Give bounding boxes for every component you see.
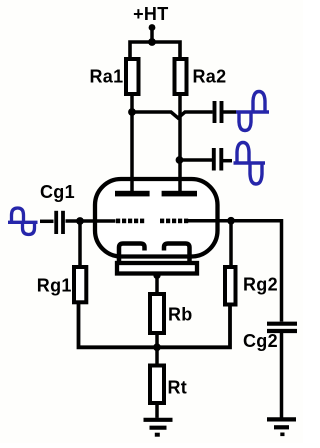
- svg-text:Rg1: Rg1: [37, 276, 72, 296]
- svg-text:+HT: +HT: [133, 4, 168, 24]
- anode plate 2: [162, 191, 197, 197]
- svg-text:Cg1: Cg1: [40, 182, 75, 202]
- wire output 2: [180, 158, 212, 162]
- wire Rg2 drop: [229, 221, 233, 265]
- wire grid 1 lead: [66, 219, 116, 223]
- junction grid 1: [76, 217, 84, 225]
- wire anode 2 vertical: [178, 96, 182, 191]
- tube envelope U1: [95, 179, 218, 257]
- wire bus to Rt: [155, 347, 159, 363]
- anode lead 1 inside: [130, 179, 134, 191]
- svg-text:Rt: Rt: [168, 378, 188, 398]
- capacitor Cg2: [267, 322, 297, 326]
- resistor Ra1: [126, 59, 139, 94]
- wire HT rail: [130, 42, 180, 57]
- capacitor output 1: [213, 101, 217, 123]
- ground left: [144, 420, 173, 428]
- resistor Rt: [150, 366, 164, 404]
- cathode bar box: [117, 263, 197, 274]
- anode plate 1: [115, 191, 150, 197]
- wire after cap 2: [223, 159, 232, 163]
- wire input to cap Cg1: [40, 220, 54, 224]
- junction bus: [153, 343, 161, 351]
- junction anode 1: [128, 108, 136, 116]
- cathode hook 1: [119, 244, 145, 262]
- ground right: [267, 419, 296, 427]
- wire +HT stub: [150, 28, 154, 43]
- wire grid 2 lead to Rg2 and right rail: [188, 221, 282, 322]
- svg-text:Rb: Rb: [168, 305, 193, 325]
- cathode hook 2: [164, 244, 190, 262]
- signal sine output 2: [234, 143, 266, 185]
- wire Rg1 to bus corner: [79, 304, 231, 347]
- anode lead 2 inside: [178, 179, 182, 191]
- wire Rt to ground: [155, 403, 159, 418]
- grid 2 dashes: [160, 219, 188, 224]
- junction grid 2: [227, 217, 235, 225]
- wire Rb to bus: [155, 335, 159, 347]
- wire Cg2 to ground: [280, 333, 284, 418]
- junction HT rail: [148, 38, 156, 46]
- svg-text:Rg2: Rg2: [243, 275, 278, 295]
- junction cathode: [153, 272, 160, 279]
- grid 1 dashes: [116, 219, 144, 224]
- resistor Rg1: [74, 267, 86, 302]
- wire after cap 1: [223, 110, 236, 114]
- signal sine input: [8, 208, 38, 235]
- junction anode 2: [176, 156, 184, 164]
- svg-text:Ra1: Ra1: [90, 67, 124, 87]
- wire cathode to Rb: [155, 276, 159, 293]
- wire output 1 with crossover: [132, 112, 213, 118]
- signal sine output 1: [236, 92, 269, 131]
- svg-text:Ra2: Ra2: [193, 67, 227, 87]
- capacitor Cg1: [54, 211, 58, 234]
- node +HT terminal dot: [149, 24, 156, 31]
- capacitor output 2: [212, 148, 216, 171]
- resistor Rb: [150, 294, 164, 333]
- resistor Ra2: [175, 59, 187, 94]
- svg-text:Cg2: Cg2: [243, 331, 278, 351]
- wire anode 1 vertical: [130, 96, 134, 191]
- wire Rg1 drop: [78, 221, 82, 265]
- resistor Rg2: [225, 267, 236, 305]
